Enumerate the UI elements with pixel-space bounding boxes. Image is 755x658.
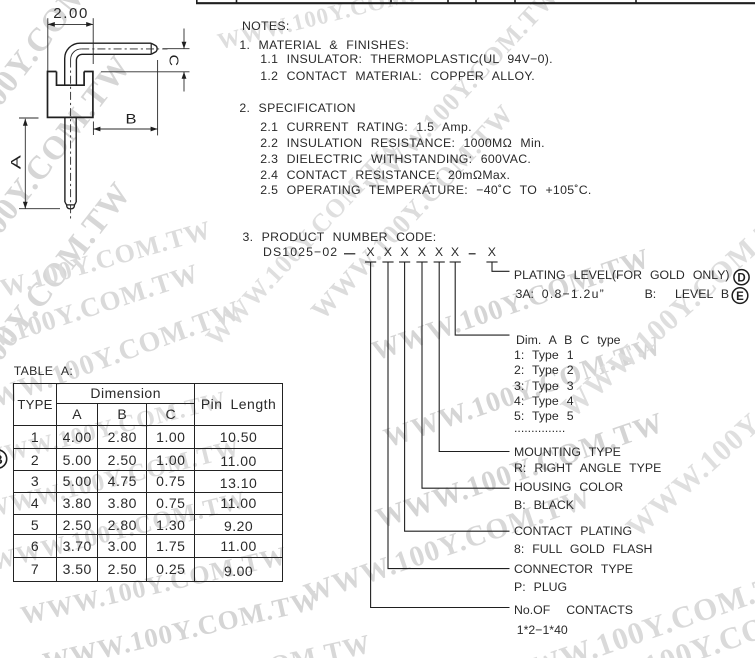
table A <box>13 383 283 582</box>
svg-text:E: E <box>736 291 744 303</box>
balloon E <box>732 288 748 304</box>
product number code <box>243 230 437 245</box>
code dashes <box>344 253 355 255</box>
dimension A <box>19 117 39 119</box>
pin tip (horizontal leg nose) <box>150 43 152 54</box>
title block bottom rule <box>196 2 755 4</box>
svg-text:D: D <box>737 273 745 285</box>
pin housing (insulator) <box>48 72 93 118</box>
svg-text:A: A <box>8 154 24 169</box>
pin: bent contact, upper bend and horizontal leg <box>65 43 152 85</box>
balloon B (left page edge) <box>0 450 7 468</box>
centerline bend arc <box>71 49 82 60</box>
pin bottom tip <box>65 202 76 205</box>
balloon D <box>734 270 749 285</box>
svg-text:B: B <box>126 111 137 127</box>
horizontal centerline <box>81 48 167 50</box>
svg-text:B: B <box>0 452 3 467</box>
svg-text:C: C <box>166 55 181 67</box>
callout labels <box>514 268 730 283</box>
drawing dim value 2.00 <box>53 5 89 24</box>
leader for plating level X <box>492 262 510 271</box>
pin: vertical leg below housing <box>64 117 66 202</box>
dimension B <box>92 122 94 136</box>
vertical centerline <box>70 60 72 222</box>
notes text <box>242 19 290 34</box>
dimension C <box>163 48 190 50</box>
dimension 2.00 <box>47 18 49 71</box>
callout leader lines <box>371 262 510 608</box>
table caption <box>14 364 73 379</box>
X underlines <box>365 261 376 263</box>
